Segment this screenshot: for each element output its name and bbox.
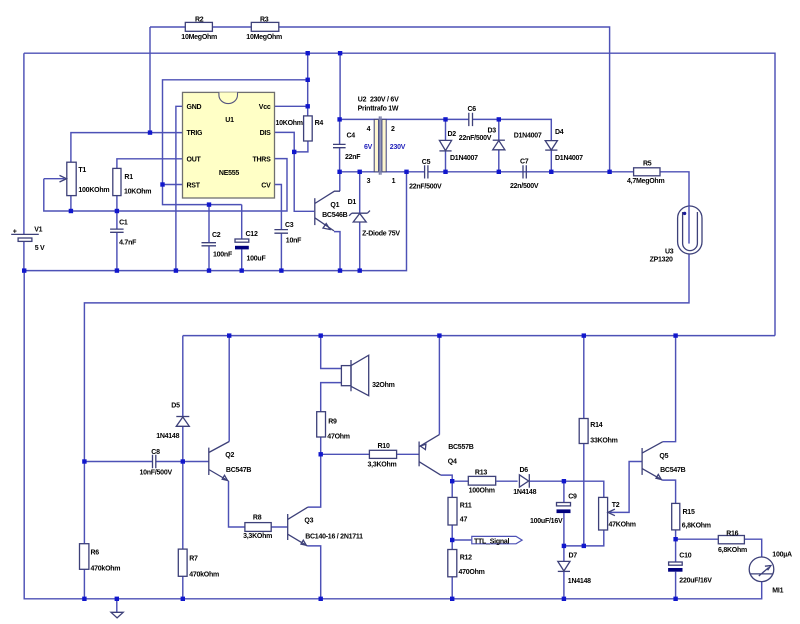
- junction (183,599): [181, 597, 185, 601]
- svg-text:R14: R14: [590, 422, 602, 429]
- wire HV top rail with C6 break: [340, 119, 552, 140]
- svg-text:47Ohm: 47Ohm: [327, 434, 350, 441]
- junction (321,336): [319, 333, 323, 337]
- junction (321,454): [319, 452, 323, 456]
- svg-text:230V / 6V: 230V / 6V: [370, 97, 399, 104]
- svg-text:22nF/500V: 22nF/500V: [409, 184, 442, 191]
- resistor R2: [185, 22, 212, 31]
- svg-text:C5: C5: [422, 159, 431, 166]
- resistor R1: [113, 168, 121, 195]
- junction (117,599): [115, 597, 119, 601]
- wire R15 to R16 node: [676, 530, 719, 539]
- label U1 pins: [187, 104, 272, 189]
- junction (340,172): [337, 170, 341, 174]
- svg-text:Q4: Q4: [448, 459, 457, 466]
- potentiometer T2: [599, 497, 615, 530]
- capacitor C10 electrolytic: [668, 562, 682, 572]
- wire DIS down to Q1 base: [275, 132, 315, 211]
- svg-text:D1N4007: D1N4007: [450, 155, 478, 162]
- wire R8 to Q3 base: [271, 526, 288, 528]
- wire R2 left leg down to TRIG net: [149, 27, 151, 133]
- capacitor C4: [333, 144, 346, 147]
- svg-text:R10: R10: [378, 443, 390, 450]
- wire C9 leads: [563, 481, 565, 546]
- wire ground symbol stub: [116, 599, 118, 613]
- svg-text:3,3KOhm: 3,3KOhm: [368, 462, 397, 469]
- resistor R11: [448, 497, 457, 525]
- capacitor C6: [469, 113, 473, 126]
- resistor R5: [634, 168, 660, 176]
- svg-text:Printtrafo 1W: Printtrafo 1W: [358, 105, 399, 112]
- svg-text:100Ohm: 100Ohm: [469, 488, 495, 495]
- wire T1 wiper: [44, 178, 65, 180]
- junction (308,106): [306, 104, 310, 108]
- wire HV bottom rail with C5 break: [340, 172, 689, 206]
- junction (321,599): [319, 597, 323, 601]
- svg-text:D1N4007: D1N4007: [514, 133, 542, 140]
- diode D4: [545, 141, 557, 151]
- svg-text:Vcc: Vcc: [259, 104, 271, 111]
- svg-text:DIS: DIS: [260, 130, 272, 137]
- svg-text:R2: R2: [195, 16, 204, 23]
- junction (406,172): [404, 170, 408, 174]
- svg-text:NE555: NE555: [219, 170, 240, 177]
- junction (24,271): [22, 268, 26, 272]
- wire C12 top lead: [241, 205, 243, 239]
- svg-text:C1: C1: [119, 219, 128, 226]
- svg-text:220uF/16V: 220uF/16V: [679, 578, 712, 585]
- svg-text:R1: R1: [124, 174, 133, 181]
- svg-text:Q5: Q5: [659, 453, 668, 460]
- junction (452,599): [450, 597, 454, 601]
- svg-text:U2: U2: [358, 97, 367, 104]
- junction (676,336): [673, 333, 677, 337]
- junction (308,53): [306, 51, 310, 55]
- transistor Q4 pnp: [419, 435, 441, 476]
- svg-text:Q1: Q1: [330, 202, 339, 209]
- wire R10 to Q4 base: [321, 453, 419, 455]
- junction (360,172): [358, 170, 362, 174]
- svg-text:100KOhm: 100KOhm: [78, 187, 109, 194]
- geiger tube U3 ZP1320: [678, 206, 702, 254]
- svg-text:230V: 230V: [390, 144, 406, 151]
- svg-text:C12: C12: [246, 231, 258, 238]
- wire THRS down to timing node: [44, 159, 287, 211]
- wire T2 wiper to Q5 base: [610, 462, 642, 513]
- svg-text:6,8KOhm: 6,8KOhm: [682, 523, 711, 530]
- capacitor C1: [110, 229, 124, 232]
- wire Vcc chain x=307: [275, 53, 308, 116]
- svg-text:5 V: 5 V: [35, 245, 45, 252]
- junction (229,336): [227, 333, 231, 337]
- wire C12 bottom lead: [241, 249, 243, 270]
- junction (242,271): [240, 268, 244, 272]
- wire TRIG to T1: [71, 133, 183, 211]
- svg-text:R4: R4: [315, 120, 324, 127]
- svg-text:R7: R7: [189, 556, 198, 563]
- junction (294,152): [292, 150, 296, 154]
- resistor R13: [468, 476, 495, 485]
- svg-text:100uF/16V: 100uF/16V: [530, 518, 563, 525]
- svg-text:GND: GND: [187, 104, 202, 111]
- wire D4 leads: [550, 150, 552, 172]
- svg-text:4,7MegOhm: 4,7MegOhm: [627, 178, 664, 185]
- svg-text:CV: CV: [261, 182, 271, 189]
- junction (499,119): [497, 117, 501, 121]
- junction (446,172): [443, 170, 447, 174]
- resistor R3: [251, 22, 278, 31]
- svg-text:1N4148: 1N4148: [568, 578, 591, 585]
- svg-text:1: 1: [392, 178, 396, 185]
- potentiometer T1: [60, 162, 77, 195]
- junction (183,462): [181, 459, 185, 463]
- svg-text:47: 47: [460, 517, 468, 524]
- capacitor C9 electrolytic: [557, 503, 571, 514]
- wire Q4 emitter from rail: [438, 336, 440, 435]
- svg-text:T2: T2: [612, 502, 620, 509]
- junction (499,172): [497, 170, 501, 174]
- svg-text:6V: 6V: [364, 144, 373, 151]
- svg-text:TTL_Signal: TTL_Signal: [474, 538, 510, 545]
- svg-text:4.7nF: 4.7nF: [119, 240, 137, 247]
- svg-text:D7: D7: [569, 553, 578, 560]
- junction (564,546): [562, 544, 566, 548]
- wire speaker bottom terminal to R9: [321, 383, 342, 412]
- wire Q5 collector to rail: [663, 336, 676, 442]
- junction (117,271): [115, 268, 119, 272]
- junction (584,336): [582, 333, 586, 337]
- wire D3 leads: [498, 119, 500, 171]
- svg-text:R15: R15: [683, 509, 695, 516]
- transformer U2: [374, 116, 386, 174]
- wire RST net y=80: [163, 80, 308, 205]
- svg-text:V1: V1: [34, 227, 42, 234]
- capacitor C5: [425, 165, 428, 178]
- junction (150,133): [148, 130, 152, 134]
- svg-text:R12: R12: [460, 555, 472, 562]
- svg-text:22n/500V: 22n/500V: [510, 183, 539, 190]
- svg-text:D2: D2: [448, 131, 457, 138]
- junction (340,53): [338, 51, 342, 55]
- resistor R14: [579, 419, 588, 444]
- diode D7: [558, 561, 570, 571]
- junction (564,599): [562, 597, 566, 601]
- svg-text:R11: R11: [460, 503, 472, 510]
- svg-text:THRS: THRS: [252, 156, 271, 163]
- junction (84,599): [82, 597, 86, 601]
- svg-text:C8: C8: [151, 449, 160, 456]
- wire Q3 emitter down: [307, 546, 320, 599]
- svg-text:100µA: 100µA: [772, 552, 792, 559]
- junction (117,211): [115, 209, 119, 213]
- resistor R16: [718, 536, 744, 544]
- resistor R10: [369, 450, 396, 458]
- svg-text:10KOhm: 10KOhm: [124, 189, 151, 196]
- junction (209,271): [207, 268, 211, 272]
- wire C9 to T2 bottom: [564, 530, 604, 546]
- capacitor C12 electrolytic: [235, 239, 249, 249]
- svg-text:D6: D6: [520, 467, 529, 474]
- junction (340,271): [338, 268, 342, 272]
- wire R13 D6 link: [452, 480, 517, 482]
- svg-text:10nF: 10nF: [286, 238, 302, 245]
- svg-text:1N4148: 1N4148: [156, 433, 179, 440]
- svg-text:BC557B: BC557B: [448, 444, 474, 451]
- svg-text:Q3: Q3: [304, 518, 313, 525]
- svg-text:R6: R6: [91, 550, 100, 557]
- svg-text:33KOhm: 33KOhm: [590, 438, 617, 445]
- svg-text:C10: C10: [679, 553, 691, 560]
- junction (340,119): [337, 117, 341, 121]
- svg-text:R3: R3: [260, 16, 269, 23]
- capacitor C8: [153, 455, 156, 468]
- junction (439,336): [437, 333, 441, 337]
- resistor R8: [245, 523, 271, 532]
- wire node A to C8: [84, 461, 152, 463]
- wire C10 leads: [675, 539, 677, 599]
- wire D5 bottom lead: [182, 426, 184, 461]
- transistor Q1: [315, 191, 340, 231]
- wire Q5 emitter to R15: [662, 480, 675, 503]
- svg-text:BC546B: BC546B: [322, 212, 348, 219]
- wire R14 leads: [583, 336, 585, 546]
- svg-text:47KOhm: 47KOhm: [609, 522, 636, 529]
- svg-text:U3: U3: [665, 249, 674, 256]
- diode D5: [176, 417, 189, 427]
- svg-text:D1: D1: [348, 199, 357, 206]
- transistor Q5: [642, 442, 663, 480]
- svg-text:3: 3: [367, 178, 371, 185]
- svg-text:100nF: 100nF: [213, 252, 233, 259]
- wire geiger tube return: [84, 254, 689, 462]
- resistor R7: [178, 549, 187, 576]
- ground symbol: [111, 612, 123, 618]
- wire C8 to Q2 base: [156, 461, 209, 463]
- wire D1 leads: [359, 172, 361, 271]
- diode D6: [519, 474, 529, 488]
- svg-text:TRIG: TRIG: [187, 130, 204, 137]
- svg-text:6,8KOhm: 6,8KOhm: [718, 547, 747, 554]
- svg-text:Z-Diode 75V: Z-Diode 75V: [362, 231, 400, 238]
- resistor R12: [448, 550, 457, 577]
- svg-text:R13: R13: [475, 470, 487, 477]
- svg-text:1N4148: 1N4148: [513, 489, 536, 496]
- junction (676,539): [673, 537, 677, 541]
- wire Q4 collector to node: [441, 475, 453, 481]
- wire R12 leads: [451, 540, 453, 599]
- wire R4 bottom to DIS: [294, 141, 308, 152]
- resistor R4: [304, 116, 313, 141]
- wire R2-R3 chain top: [150, 27, 610, 172]
- wire 5V feed down to transformer top: [339, 53, 341, 119]
- wire Q1 collector to transformer pin3: [339, 172, 341, 191]
- junction (610,172): [607, 170, 611, 174]
- resistor R9: [317, 412, 326, 437]
- wire GND pin down: [176, 106, 183, 270]
- svg-text:C4: C4: [347, 133, 356, 140]
- wire C2 top lead: [208, 205, 210, 243]
- meter MI1: [749, 557, 774, 582]
- wire D7 leads: [563, 546, 565, 599]
- svg-text:OUT: OUT: [187, 156, 202, 163]
- svg-text:BC140-16 / 2N1711: BC140-16 / 2N1711: [305, 534, 363, 541]
- capacitor C2: [202, 243, 217, 246]
- battery V1: [11, 234, 39, 241]
- diode D3: [493, 140, 505, 150]
- wire Q2 emitter to R8: [229, 481, 245, 527]
- svg-text:Q2: Q2: [225, 452, 234, 459]
- wire D2 leads: [445, 119, 447, 171]
- wire speaker top terminal: [321, 336, 342, 369]
- resistor R6: [80, 544, 89, 570]
- junction (176,271): [174, 268, 178, 272]
- svg-text:BC547B: BC547B: [226, 467, 252, 474]
- svg-text:D4: D4: [555, 129, 564, 136]
- svg-text:4: 4: [367, 126, 371, 133]
- svg-text:R9: R9: [328, 419, 337, 426]
- diode D2: [439, 140, 451, 151]
- junction (584,546): [582, 544, 586, 548]
- wire R16 to meter: [744, 539, 761, 557]
- svg-text:C2: C2: [212, 232, 221, 239]
- svg-text:RST: RST: [187, 182, 201, 189]
- svg-text:470kOhm: 470kOhm: [91, 566, 121, 573]
- transistor Q2: [209, 442, 229, 482]
- wire ground rail bottom: [24, 271, 762, 599]
- svg-text:470Ohm: 470Ohm: [459, 569, 485, 576]
- wire OUT to R1: [117, 159, 183, 211]
- svg-text:D5: D5: [171, 403, 180, 410]
- svg-text:C6: C6: [468, 106, 477, 113]
- svg-text:3,3KOhm: 3,3KOhm: [243, 533, 272, 540]
- svg-text:R16: R16: [726, 530, 738, 537]
- svg-text:BC547B: BC547B: [660, 467, 686, 474]
- svg-text:ZP1320: ZP1320: [650, 257, 673, 264]
- svg-text:D3: D3: [488, 128, 497, 135]
- wire R6 leads: [83, 462, 85, 599]
- junction (162,184): [160, 182, 164, 186]
- TTL_Signal flag: [472, 536, 522, 543]
- svg-text:2: 2: [391, 126, 395, 133]
- svg-text:10MegOhm: 10MegOhm: [181, 34, 217, 41]
- diode D1 zener 75V: [349, 211, 370, 222]
- wire TTL flag stub: [452, 539, 471, 541]
- svg-text:T1: T1: [78, 167, 86, 174]
- wire R7 leads: [182, 462, 184, 599]
- wire +5V rail from battery: [24, 53, 775, 335]
- transistor Q3: [288, 507, 308, 546]
- svg-text:U1: U1: [225, 117, 234, 124]
- wire D5 top lead: [182, 336, 184, 417]
- junction (564,481): [562, 479, 566, 483]
- svg-text:470kOhm: 470kOhm: [189, 572, 219, 579]
- op-amp U1 NE555 body: [183, 92, 275, 198]
- junction (308,80): [306, 78, 310, 82]
- junction (209,205): [207, 202, 211, 206]
- junction (452,481): [450, 479, 454, 483]
- wire audio supply rail: [183, 335, 775, 337]
- junction (281,271): [279, 268, 283, 272]
- svg-text:+: +: [13, 229, 17, 236]
- capacitor C7: [523, 165, 526, 178]
- svg-text:C7: C7: [520, 159, 529, 166]
- wire D6 to T2 top: [530, 481, 604, 497]
- svg-text:100uF: 100uF: [247, 256, 267, 263]
- svg-text:C3: C3: [285, 222, 294, 229]
- speaker 32Ohm: [341, 355, 368, 396]
- svg-text:D1N4007: D1N4007: [555, 155, 583, 162]
- svg-text:R8: R8: [253, 515, 262, 522]
- wire Q2 collector up to rail: [228, 336, 230, 442]
- wire Q1 emitter down: [334, 232, 340, 271]
- junction (71,211): [69, 209, 73, 213]
- svg-text:10nF/500V: 10nF/500V: [140, 470, 173, 477]
- junction (452,540): [450, 538, 454, 542]
- svg-text:22nF: 22nF: [345, 154, 361, 161]
- wire C2 bottom lead: [208, 246, 210, 271]
- junction (551,172): [549, 170, 553, 174]
- capacitor C3: [274, 230, 288, 234]
- wire C4 leads: [339, 119, 341, 171]
- svg-text:22nF/500V: 22nF/500V: [459, 135, 492, 142]
- svg-text:C9: C9: [568, 494, 577, 501]
- junction (446,119): [443, 117, 447, 121]
- wire Q3 collector riser: [308, 437, 321, 507]
- svg-text:MI1: MI1: [772, 588, 783, 595]
- wire battery minus and ground rail of oscillator: [24, 172, 407, 271]
- wire C1 leads: [116, 211, 118, 271]
- svg-text:10KOhm: 10KOhm: [276, 120, 303, 127]
- svg-text:10MegOhm: 10MegOhm: [246, 34, 282, 41]
- resistor R15: [672, 503, 680, 530]
- svg-text:R5: R5: [643, 161, 652, 168]
- junction (676,599): [673, 597, 677, 601]
- svg-text:32Ohm: 32Ohm: [372, 382, 395, 389]
- junction (360,271): [358, 268, 362, 272]
- junction (84,462): [82, 459, 86, 463]
- wire CV to C3: [275, 185, 282, 271]
- wire R11 leads: [451, 481, 453, 540]
